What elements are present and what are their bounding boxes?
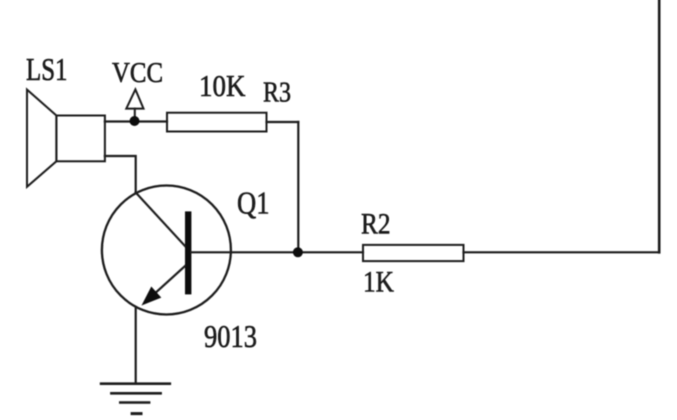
wire speaker to collector	[105, 156, 136, 193]
transistor Q1 circle	[102, 186, 231, 315]
svg-text:R2: R2	[361, 208, 391, 241]
wire base to R2	[191, 251, 363, 253]
svg-text:R3: R3	[263, 77, 291, 109]
wire right vertical to top	[658, 0, 661, 252]
svg-text:10K: 10K	[199, 69, 246, 103]
speaker LS1	[27, 90, 105, 187]
svg-text:9013: 9013	[204, 318, 257, 354]
wire R3 down to base node	[297, 122, 299, 252]
junction base node	[293, 247, 303, 257]
wire speaker to R3	[105, 120, 167, 122]
transistor Q1 emitter arrow	[142, 287, 162, 306]
transistor Q1 base bar	[185, 211, 191, 294]
junction VCC node	[130, 116, 140, 126]
svg-text:1K: 1K	[363, 266, 394, 299]
svg-text:VCC: VCC	[112, 58, 163, 89]
resistor R2	[363, 245, 464, 261]
ground	[101, 384, 170, 414]
wire R3 right	[267, 121, 299, 123]
svg-text:LS1: LS1	[26, 51, 68, 87]
transistor Q1 collector lead	[136, 193, 185, 247]
resistor R3	[167, 113, 267, 132]
wire R2 right	[464, 251, 660, 253]
power VCC arrow	[126, 89, 143, 118]
transistor Q1 emitter lead	[146, 266, 185, 302]
svg-text:Q1: Q1	[237, 185, 270, 221]
wire emitter to ground	[135, 307, 137, 384]
